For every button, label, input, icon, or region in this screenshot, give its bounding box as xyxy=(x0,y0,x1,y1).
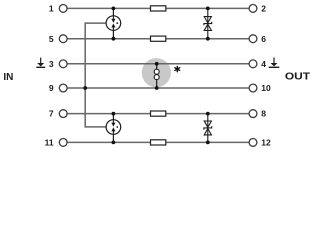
svg-text:12: 12 xyxy=(261,138,271,148)
node junction spark gap bottom on row 4 xyxy=(155,86,159,90)
svg-text:1: 1 xyxy=(49,4,54,14)
terminal 1 circle xyxy=(59,4,67,12)
terminal 4 circle xyxy=(249,60,257,68)
terminal 12 circle xyxy=(249,139,257,147)
node junction F2 bottom on row 6 xyxy=(112,141,116,145)
svg-text:6: 6 xyxy=(261,34,266,44)
svg-text:11: 11 xyxy=(45,138,54,148)
spark gap shaded circle (gray background) xyxy=(142,58,171,87)
gas discharge tube F1 (upper, between rows 1 and 2) xyxy=(106,8,121,38)
svg-text:5: 5 xyxy=(49,34,54,44)
ground symbol right (at terminal 4) xyxy=(269,58,280,68)
TVS diode D1 (bidirectional, between rows 1 and 2) xyxy=(204,8,212,38)
node junction D2 bottom on row 6 xyxy=(206,141,210,145)
svg-text:3: 3 xyxy=(49,59,54,69)
wire row 6 (terminal 11 to terminal 12) xyxy=(67,141,249,143)
spark gap electrodes (between rows 3 and 4) xyxy=(154,64,159,88)
terminal 11 circle xyxy=(59,139,67,147)
svg-text:9: 9 xyxy=(49,83,54,93)
resistor R3 (row 5) xyxy=(151,111,166,116)
wire vertical connector (GDT center electrodes to row 4) xyxy=(85,23,106,127)
terminal 3 circle xyxy=(59,60,67,68)
TVS diode D2 (bidirectional, between rows 5 and 6) xyxy=(204,114,212,143)
wire row 1 (terminal 1 to terminal 2) xyxy=(67,7,249,9)
ground symbol left (at terminal 3) xyxy=(36,58,45,68)
wire row 5 (terminal 7 to terminal 8) xyxy=(67,113,249,115)
node junction D2 top on row 5 xyxy=(206,112,210,116)
gas discharge tube F2 (lower, between rows 5 and 6) xyxy=(106,114,121,143)
svg-text:2: 2 xyxy=(261,4,266,14)
node junction F1 bottom on row 2 xyxy=(112,37,116,41)
svg-text:10: 10 xyxy=(261,83,271,93)
node junction F1 top on row 1 xyxy=(112,6,116,10)
terminal 9 circle xyxy=(59,84,67,92)
svg-text:8: 8 xyxy=(261,109,266,119)
node junction D1 top on row 1 xyxy=(206,6,210,10)
svg-text:OUT: OUT xyxy=(285,72,310,83)
terminal 8 circle xyxy=(249,110,257,118)
node junction F2 top on row 5 xyxy=(112,112,116,116)
svg-text:4: 4 xyxy=(261,59,266,69)
resistor R4 (row 6) xyxy=(151,140,166,145)
terminal 5 circle xyxy=(59,35,67,43)
node junction spark gap top on row 3 xyxy=(155,62,159,66)
svg-text:7: 7 xyxy=(49,109,54,119)
terminal 6 circle xyxy=(249,35,257,43)
terminal 10 circle xyxy=(249,84,257,92)
svg-text:IN: IN xyxy=(3,72,13,83)
node junction of vertical connector on row 4 xyxy=(83,86,87,90)
terminal 2 circle xyxy=(249,4,257,12)
wire row 4 (terminal 9 to terminal 10) xyxy=(67,87,249,89)
wire row 2 (terminal 5 to terminal 6) xyxy=(67,38,249,40)
wire row 3 (terminal 3 to terminal 4, ground line) xyxy=(67,63,249,65)
node junction D1 bottom on row 2 xyxy=(206,37,210,41)
resistor R1 (row 1) xyxy=(151,6,166,11)
resistor R2 (row 2) xyxy=(151,36,166,41)
footnote asterisk xyxy=(175,66,180,71)
terminal 7 circle xyxy=(59,110,67,118)
